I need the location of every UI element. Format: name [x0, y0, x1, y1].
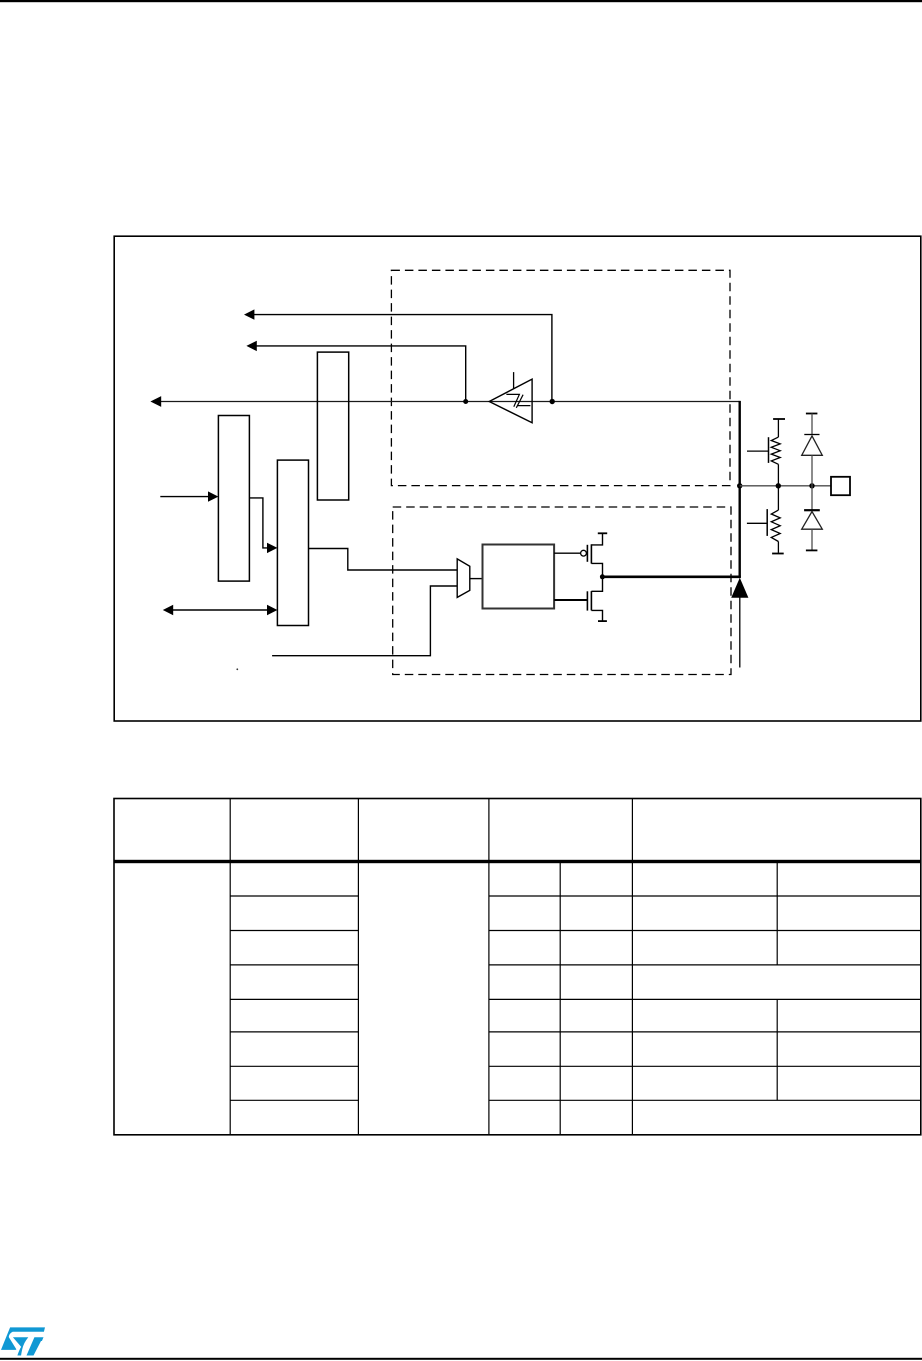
diode D1: triangle — [802, 436, 823, 455]
arrowhead: write — [208, 491, 218, 501]
power VDD tick above pull-up resistor — [773, 418, 785, 420]
node: push-pull output node dot — [600, 574, 605, 579]
register: bit set/reset register (rect R-C) — [277, 460, 308, 625]
transistor Q1: gate bubble — [581, 550, 587, 556]
table row line 1 — [230, 895, 921, 897]
table sub-divider lower segment — [776, 999, 778, 1100]
resistor R1: pull-up wire top — [777, 419, 779, 437]
page header rule — [0, 0, 922, 2]
page footer rule — [0, 1358, 922, 1360]
diode D2: cathode bar — [804, 509, 820, 511]
node: pad junction dot — [737, 483, 742, 488]
switch bar of pull-up (on/off) — [768, 437, 770, 463]
ground tick below diode D2 — [806, 549, 818, 551]
table column line symbol/parameter — [229, 799, 231, 1135]
table row line 5 — [230, 1031, 921, 1033]
table row line 6 — [230, 1065, 921, 1067]
table row line 7 — [230, 1099, 921, 1101]
wire: main input line from pad to peripherals — [160, 401, 740, 403]
node: junction dot at schmitt input — [550, 399, 555, 404]
power VDD bar above Q1 — [598, 532, 607, 534]
wire: alternate function input line — [253, 315, 552, 402]
transistor Q1: channel bar — [590, 544, 592, 563]
diode D1: wire to VDD — [811, 414, 813, 435]
arrowhead: to on-chip peripheral — [150, 396, 161, 407]
register: input data register (rect R-A) — [317, 352, 348, 500]
input driver dashed box — [391, 270, 730, 485]
wire: output drive line to pad — [602, 575, 740, 578]
wire: write arrow into output data register — [160, 496, 209, 498]
wire: read/write bidirectional arrow — [172, 609, 270, 611]
ground bar below Q2 — [598, 620, 607, 622]
table column line conditions/min — [488, 799, 490, 1135]
transistor Q2: channel bar — [590, 591, 592, 610]
stray period mark — [236, 668, 238, 670]
diode D2: wire from pad line — [811, 486, 813, 510]
wire: pad horizontal line — [740, 485, 831, 487]
resistor R2: pull-down wire bottom — [777, 542, 779, 553]
register: output data register (rect R-B) — [218, 416, 249, 582]
transistor Q2: gate bar — [586, 591, 588, 610]
wire: mux output to output control — [470, 578, 483, 580]
wire: input data register read line — [256, 346, 466, 402]
table row line 3 — [230, 964, 921, 966]
op-amp U1: TTL Schmitt trigger — [489, 379, 532, 423]
wire: pull-up on/off control — [747, 450, 769, 452]
mux: output selector trapezoid — [457, 559, 470, 598]
arrowhead: alternate function input — [244, 309, 254, 319]
wire: output data register to bit set/reset step — [249, 498, 268, 548]
node: junction dot at pull resistors — [776, 483, 781, 488]
transistor Q1: source to VDD — [591, 533, 602, 545]
table column line parameter/conditions — [357, 799, 359, 1135]
figure frame — [114, 236, 921, 721]
transistor Q1: P-MOS gate wire — [554, 552, 580, 554]
diode D1: wire to pad line — [811, 455, 813, 486]
hysteresis symbol of Schmitt trigger — [506, 394, 530, 407]
wire: register to output control upper path — [309, 549, 458, 571]
table header thick rule — [114, 860, 921, 863]
table row line 4 — [230, 998, 921, 1000]
resistor R2: pull-down zigzag — [771, 510, 780, 541]
output driver dashed box — [393, 507, 731, 675]
wire: thick pad vertical line — [739, 401, 741, 578]
arrowhead: analog input up arrow — [731, 578, 748, 598]
resistor R1: pull-up zigzag — [771, 437, 780, 464]
resistor R2: pull-down wire top — [777, 486, 779, 510]
transistor Q2: source to ground — [591, 610, 602, 621]
node: junction dot at schmitt output — [463, 399, 468, 404]
table outer border — [114, 799, 921, 1135]
table column line max/unit — [631, 799, 633, 1135]
diode D2: triangle — [802, 512, 823, 530]
arrowhead: read line — [246, 341, 256, 351]
arrowhead: read/write right — [267, 605, 277, 615]
arrowhead: read/write left — [163, 605, 173, 615]
pad: I/O pin square — [831, 477, 850, 495]
wire: pull-down on/off control — [747, 522, 767, 524]
transistor Q2: N-MOS gate wire — [554, 599, 587, 601]
table sub-divider upper segment — [776, 862, 778, 965]
wire: alternate function output lower path — [272, 586, 457, 656]
wire: schmitt trigger enable stub — [513, 372, 515, 389]
table column line min/max sub-divider — [559, 862, 561, 1135]
resistor R1: pull-up wire bottom — [777, 464, 779, 486]
diode D1: cathode bar — [804, 434, 819, 436]
power VDD tick above diode D1 — [806, 413, 818, 415]
diode D2: wire to ground — [811, 529, 813, 550]
ST logo — [1, 1327, 45, 1355]
transistor Q1: drain to output node — [591, 563, 602, 576]
block: output control logic — [483, 545, 555, 609]
transistor Q1: gate bar — [586, 545, 588, 562]
switch bar of pull-down (on/off) — [766, 509, 768, 536]
ground tick below pull-down resistor — [772, 553, 784, 555]
arrowhead: step into register — [267, 543, 277, 553]
node: junction dot at protection diodes — [809, 483, 814, 488]
table row line 2 — [230, 930, 921, 932]
wire: analog input line — [739, 597, 741, 668]
transistor Q2: drain to output node — [591, 577, 602, 592]
